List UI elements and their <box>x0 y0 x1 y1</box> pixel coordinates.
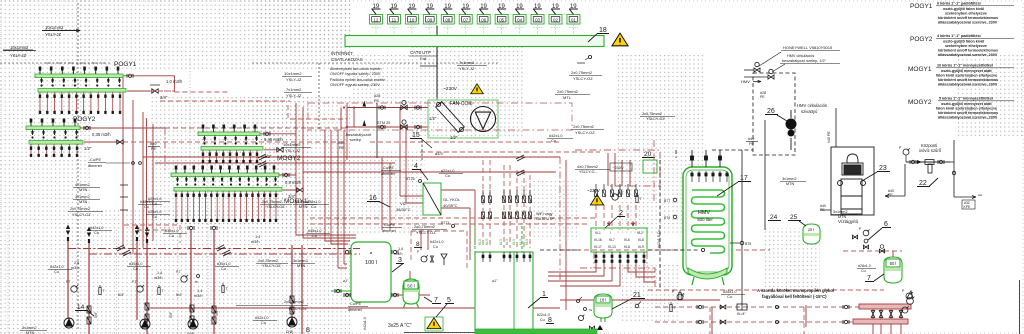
svg-text:Cu: Cu <box>169 234 174 238</box>
bottom right verticals dark <box>711 307 713 334</box>
svg-text:Cu/PE: Cu/PE <box>383 166 394 170</box>
svg-text:m3/h: m3/h <box>194 294 202 298</box>
svg-text:1/2": 1/2" <box>84 146 92 151</box>
svg-text:szekrényben elhelyezve: szekrényben elhelyezve <box>945 44 987 48</box>
svg-text:#42x1,0: #42x1,0 <box>430 240 444 244</box>
svg-text:0,35 m3/h: 0,35 m3/h <box>92 132 111 137</box>
svg-text:7x1mm2: 7x1mm2 <box>459 60 475 65</box>
svg-text:#20: #20 <box>150 142 156 146</box>
svg-text:PE: PE <box>760 95 765 99</box>
svg-text:2x0,75mm2: 2x0,75mm2 <box>284 300 304 304</box>
svg-text:4: 4 <box>414 163 418 170</box>
svg-text:CSATLAKOZÁS: CSATLAKOZÁS <box>331 57 363 62</box>
svg-text:ivóvíz szűrő: ivóvíz szűrő <box>919 148 942 153</box>
svg-text:Vízlágyító: Vízlágyító <box>838 219 859 224</box>
manifold POGY1 supply bar <box>35 74 123 78</box>
svg-text:POGY2: POGY2 <box>910 36 933 43</box>
svg-text:5/4": 5/4" <box>94 311 98 318</box>
svg-text:#42x1,0: #42x1,0 <box>363 317 367 330</box>
svg-text:#35x1,0: #35x1,0 <box>129 262 143 266</box>
svg-text:06: 06 <box>481 18 486 23</box>
expansion tank 18l <box>594 294 612 322</box>
svg-text:4x1mm2: 4x1mm2 <box>75 183 90 187</box>
svg-text:falon kívül szekrényben elhely: falon kívül szekrényben elhelyezve <box>936 74 997 78</box>
check marks on runs <box>116 245 125 251</box>
svg-text:1/2": 1/2" <box>450 135 458 140</box>
svg-text:B: B <box>306 328 310 334</box>
red pipes bottom network <box>150 230 560 308</box>
svg-text:P,T: P,T <box>66 280 71 284</box>
svg-text:16: 16 <box>369 195 377 202</box>
KL box drops <box>595 252 645 264</box>
svg-text:KL5: KL5 <box>485 239 489 245</box>
svg-text:körönként on/off termoelektrom: körönként on/off termoelektromos <box>938 111 998 115</box>
svg-text:14: 14 <box>77 304 85 311</box>
svg-text:#50: #50 <box>338 141 344 145</box>
svg-text:50 l: 50 l <box>407 284 414 289</box>
svg-text:YSLY-JZ: YSLY-JZ <box>286 93 302 98</box>
svg-text:3/4": 3/4" <box>160 95 168 100</box>
svg-text:1,4: 1,4 <box>398 247 403 251</box>
svg-text:20: 20 <box>644 151 652 158</box>
svg-text:4x0,75mm2: 4x0,75mm2 <box>577 164 599 169</box>
svg-text:MTN: MTN <box>79 200 87 204</box>
svg-text:falon kívül szekrényben elhely: falon kívül szekrényben elhelyezve <box>936 107 997 111</box>
svg-text:Cu: Cu <box>152 202 157 206</box>
svg-text:10x1mm2: 10x1mm2 <box>283 142 301 147</box>
fan-coil pump <box>471 107 496 132</box>
svg-text:2x0,75mm2: 2x0,75mm2 <box>70 207 90 211</box>
svg-text:m3/h: m3/h <box>394 252 402 256</box>
fan-coil drop dashed <box>421 140 423 160</box>
svg-text:átmenet: átmenet <box>381 172 396 176</box>
svg-text:Cu: Cu <box>861 269 866 273</box>
svg-text:YSLCY-OZ: YSLCY-OZ <box>266 205 285 209</box>
svg-text:GL.YKOL: GL.YKOL <box>443 197 461 202</box>
feed junction dots <box>343 106 345 108</box>
svg-text:1,4: 1,4 <box>255 235 260 239</box>
top-left dash-dot room line <box>45 62 105 64</box>
svg-text:24: 24 <box>770 214 778 221</box>
svg-text:#35x1,0: #35x1,0 <box>217 262 231 266</box>
svg-text:KL13: KL13 <box>608 245 616 249</box>
heat pump bottom bar <box>475 329 597 334</box>
svg-text:KL8: KL8 <box>624 245 630 249</box>
svg-text:WiFi vagy: WiFi vagy <box>536 212 553 216</box>
manifold MOGY2 loop pipes <box>202 150 258 163</box>
svg-text:3x25 A "C": 3x25 A "C" <box>388 323 412 329</box>
column3 fittings <box>181 276 187 282</box>
manifold POGY2 return bar <box>29 141 83 145</box>
svg-text:YSLCY-OZ: YSLCY-OZ <box>288 307 307 311</box>
black wires middle <box>120 97 437 210</box>
bottom right valves on dashed lines <box>720 305 726 309</box>
wire circle top mid <box>588 55 591 58</box>
svg-text:YSLCY-OZ: YSLCY-OZ <box>416 230 436 235</box>
manifold MOGY1 supply bar <box>171 173 279 177</box>
svg-text:YSLY-JZ: YSLY-JZ <box>285 148 301 153</box>
svg-text:8: 8 <box>548 317 552 324</box>
svg-text:Cu: Cu <box>54 270 59 274</box>
svg-text:0,45 m3/h: 0,45 m3/h <box>264 137 283 142</box>
svg-text:m3/h: m3/h <box>71 266 79 270</box>
label 32 KPE boxed <box>962 200 975 209</box>
bottom right thermos <box>670 305 672 312</box>
safety valve right <box>907 291 913 298</box>
svg-text:MOGY2: MOGY2 <box>277 155 301 162</box>
svg-text:KL8: KL8 <box>638 238 644 242</box>
HMV tank 17 <box>683 167 732 275</box>
pe drop line <box>376 103 378 158</box>
svg-text:02: 02 <box>553 18 558 23</box>
fan-coil valves on feed <box>401 105 407 109</box>
svg-text:átmenet: átmenet <box>348 308 363 312</box>
svg-text:KL2: KL2 <box>637 231 643 235</box>
svg-text:Cu: Cu <box>727 295 732 299</box>
svg-text:ON/OFF bypass szelep, 230V: ON/OFF bypass szelep, 230V <box>330 72 381 76</box>
svg-text:YSLY-JZ: YSLY-JZ <box>459 66 475 71</box>
svg-text:5: 5 <box>447 297 451 304</box>
svg-text:⌀1": ⌀1" <box>492 279 498 283</box>
svg-text:YSLCY-OZ: YSLCY-OZ <box>262 264 281 268</box>
svg-text:BT7: BT7 <box>664 199 670 203</box>
svg-text:17: 17 <box>740 175 748 182</box>
svg-text:10x1mm2: 10x1mm2 <box>45 25 64 30</box>
svg-text:#22x1,0: #22x1,0 <box>537 313 550 317</box>
wire CAT6 UTP vertical <box>436 26 438 98</box>
fan-coil radiator slab <box>436 102 465 133</box>
svg-text:10 körös 1"-1" mennyezethűtési: 10 körös 1"-1" mennyezethűtési <box>937 64 993 68</box>
svg-text:BT6: BT6 <box>664 216 670 220</box>
svg-text:állásszabályozóval szerelve, 2: állásszabályozóval szerelve, 230V <box>938 21 998 25</box>
svg-text:#28x1,0: #28x1,0 <box>858 264 871 268</box>
svg-text:YSLY-JZ: YSLY-JZ <box>10 53 27 58</box>
small fittings left of 18l tank <box>577 300 580 303</box>
svg-text:38/30°C: 38/30°C <box>396 207 411 212</box>
svg-text:CAT6 UTP: CAT6 UTP <box>536 217 555 221</box>
wire cat6 label leader <box>420 65 437 67</box>
svg-text:7: 7 <box>867 275 871 282</box>
svg-text:2x0,75mm2: 2x0,75mm2 <box>262 200 282 204</box>
svg-text:átmenet: átmenet <box>88 164 103 168</box>
svg-text:PE: PE <box>151 147 157 151</box>
filter symbol row <box>906 161 950 163</box>
svg-text:YSLCY-OZ: YSLCY-OZ <box>575 130 595 135</box>
tank 100l <box>351 242 391 302</box>
column4 fittings <box>290 296 294 314</box>
red bottom right drops <box>873 309 901 334</box>
svg-text:PE: PE <box>374 99 380 103</box>
svg-text:osztó-gyűjtő falon kívül: osztó-gyűjtő falon kívül <box>943 40 984 44</box>
svg-text:Ta: Ta <box>589 308 593 312</box>
svg-text:Cu: Cu <box>152 215 157 219</box>
svg-text:PE: PE <box>820 208 825 212</box>
black wires right plumbing <box>404 108 1020 334</box>
svg-text:FAN-COIL: FAN-COIL <box>449 101 472 107</box>
svg-text:KL6: KL6 <box>624 238 630 242</box>
svg-text:PE: PE <box>339 146 345 150</box>
svg-text:állásszabályozóval szerelve, 2: állásszabályozóval szerelve, 230V <box>938 83 998 87</box>
svg-text:26: 26 <box>767 108 775 115</box>
softener room frame <box>831 147 874 215</box>
svg-text:#40: #40 <box>748 137 754 141</box>
svg-text:100 l: 100 l <box>365 260 377 266</box>
svg-text:Cu: Cu <box>311 205 316 209</box>
red staircase to buffer tank <box>296 130 356 268</box>
red distribution dash-dot runs bottom-left <box>68 249 360 255</box>
svg-text:7x1mm2: 7x1mm2 <box>286 87 302 92</box>
HMV tank legs <box>692 277 724 285</box>
svg-text:átmenet: átmenet <box>382 229 397 233</box>
cabinet top green labels <box>478 239 529 245</box>
svg-text:7: 7 <box>434 297 438 304</box>
svg-text:KPE: KPE <box>964 205 972 209</box>
heat exchanger 4 <box>423 183 441 215</box>
red dashdot left of tank <box>653 140 655 203</box>
water softener device 23 <box>838 154 866 214</box>
black dashed boxes and wires right <box>540 73 795 290</box>
wire labels left arrows <box>42 30 80 32</box>
svg-text:07: 07 <box>463 18 468 23</box>
svg-text:Cu: Cu <box>261 321 266 325</box>
svg-text:MTN: MTN <box>297 264 305 268</box>
heat pump green cabinet <box>475 252 533 330</box>
svg-text:MOGY1: MOGY1 <box>908 66 932 73</box>
svg-text:HMV: HMV <box>698 210 711 216</box>
svg-text:INTERNET: INTERNET <box>331 51 353 56</box>
svg-text:6: 6 <box>884 221 888 228</box>
svg-text:10: 10 <box>409 18 414 23</box>
svg-text:YSLCY-OZ: YSLCY-OZ <box>72 213 91 217</box>
red pipe dashed runs <box>123 101 636 248</box>
svg-text:04: 04 <box>517 18 522 23</box>
svg-text:MTL: MTL <box>563 95 572 100</box>
cabinet inner connectors <box>482 252 531 262</box>
svg-text:állásszabályozóval szerelve, 2: állásszabályozóval szerelve, 230V <box>938 116 998 120</box>
manifold POGY2 supply bar <box>26 126 80 130</box>
svg-text:P,T: P,T <box>132 280 137 284</box>
KL feed arrows <box>607 221 634 226</box>
230V box mid <box>610 163 632 171</box>
svg-text:KL5: KL5 <box>512 239 516 245</box>
svg-text:körönként on/off termoelektrom: körönként on/off termoelektromos <box>938 49 998 53</box>
dotted boundary bottom-left <box>116 230 118 334</box>
svg-text:23: 23 <box>879 165 887 172</box>
svg-text:MTN: MTN <box>299 205 307 209</box>
svg-text:1,0 m3/h: 1,0 m3/h <box>166 79 183 84</box>
manifold MOGY1 return bar <box>174 188 282 192</box>
svg-text:10x1mm2: 10x1mm2 <box>10 45 29 50</box>
safety group fittings <box>421 256 427 262</box>
svg-text:KL1: KL1 <box>595 231 601 235</box>
svg-text:m3/h: m3/h <box>154 276 162 280</box>
svg-text:YSLY-JZ: YSLY-JZ <box>45 32 62 37</box>
red dashed bottom-right runs <box>560 250 902 334</box>
svg-text:osztó-gyűjtő mennyezet alatt: osztó-gyűjtő mennyezet alatt <box>941 69 992 73</box>
red filled header bars bottom right <box>859 304 911 309</box>
svg-text:#40 PE: #40 PE <box>827 131 831 143</box>
background dotted zones <box>0 0 90 334</box>
svg-text:fagyállóval kell feltölteni! (: fagyállóval kell feltölteni! (-15°C) <box>762 294 827 299</box>
warning triangle bus <box>612 33 628 46</box>
svg-text:#42x1,0: #42x1,0 <box>549 134 563 138</box>
svg-text:22: 22 <box>919 180 927 187</box>
HMV tank bottom dome <box>688 268 727 279</box>
manifold POGY1 return bar <box>38 89 126 93</box>
gauges bottom right bars <box>906 293 912 299</box>
red pipe network middle <box>143 103 560 260</box>
red risers bottom-left columns <box>68 230 302 334</box>
gauge P right <box>903 149 909 155</box>
svg-text:15: 15 <box>412 132 420 139</box>
svg-text:3: 3 <box>398 257 402 264</box>
svg-text:HMV cirkulációs: HMV cirkulációs <box>787 54 814 58</box>
svg-text:KL5: KL5 <box>525 239 529 245</box>
red pipes KL box risers <box>560 153 720 310</box>
svg-text:PE: PE <box>888 193 893 197</box>
svg-text:12: 12 <box>374 18 379 23</box>
svg-text:8: 8 <box>416 241 420 248</box>
KL terminal box 2 <box>591 228 647 252</box>
svg-text:beszabályozott: beszabályozott <box>346 133 372 137</box>
svg-text:D(Ø): D(Ø) <box>286 330 293 334</box>
svg-text:2x0,75mm2: 2x0,75mm2 <box>642 112 662 116</box>
black dashed control wires left <box>0 3 500 330</box>
svg-text:Fali: Fali <box>420 56 427 61</box>
svg-text:2x0,75mm2: 2x0,75mm2 <box>573 124 595 129</box>
manifold MOGY2 supply bar <box>198 132 260 136</box>
svg-text:KL5: KL5 <box>478 239 482 245</box>
black dashed y250 right part <box>648 249 700 251</box>
svg-text:KL5: KL5 <box>499 239 503 245</box>
svg-text:11: 11 <box>392 18 397 23</box>
svg-text:#42x1,5 Cu: #42x1,5 Cu <box>657 230 661 248</box>
svg-text:P: P <box>902 289 904 293</box>
fan-coil unit box <box>428 100 498 138</box>
HMV top pipes <box>691 150 722 167</box>
red pipe network left risers <box>80 76 347 254</box>
svg-text:#28x1,0: #28x1,0 <box>723 290 737 294</box>
terminal row boxes 12..01 <box>370 4 383 35</box>
svg-text:állásszabályozóval szerelve, 2: állásszabályozóval szerelve, 230V <box>938 53 998 57</box>
svg-text:YSLY-JZ: YSLY-JZ <box>286 77 302 82</box>
column1 fittings <box>71 286 77 292</box>
svg-text:BT25: BT25 <box>406 177 415 181</box>
svg-text:3x1mm2: 3x1mm2 <box>782 177 797 181</box>
svg-text:4 körös 1"-1" padlófűtési: 4 körös 1"-1" padlófűtési <box>937 34 981 38</box>
expansion tank 50l right <box>884 257 902 283</box>
svg-text:2,8: 2,8 <box>74 261 79 265</box>
svg-text:5 körös 1"-1" mennyezethűtési: 5 körös 1"-1" mennyezethűtési <box>939 97 993 101</box>
svg-text:#35x1,0: #35x1,0 <box>308 229 322 233</box>
honeywell valves <box>754 68 760 72</box>
tank 100l connectors <box>344 293 350 297</box>
svg-text:2: 2 <box>619 210 623 217</box>
manifold MOGY1 loop pipes <box>175 191 277 222</box>
svg-text:~230V: ~230V <box>612 165 624 170</box>
svg-text:#28: #28 <box>374 94 380 98</box>
svg-text:Átmennyiseti fan-coilok esetén: Átmennyiseti fan-coilok esetén <box>330 67 382 71</box>
node circles right <box>952 171 955 174</box>
svg-text:40/35°C: 40/35°C <box>443 203 458 208</box>
HMV sensors <box>673 198 677 202</box>
svg-text:Cu: Cu <box>221 267 226 271</box>
svg-text:PE: PE <box>749 142 755 146</box>
KL bottom red bundle <box>548 264 655 286</box>
svg-text:körönként on/off termoelektrom: körönként on/off termoelektromos <box>938 16 998 20</box>
svg-text:KL9: KL9 <box>638 245 644 249</box>
svg-text:POGY1: POGY1 <box>910 3 933 10</box>
gauge PT mid <box>612 194 618 200</box>
svg-text:1/2": 1/2" <box>429 116 437 121</box>
svg-text:5/4": 5/4" <box>215 309 219 316</box>
svg-text:18 l: 18 l <box>600 298 607 303</box>
thermo mid <box>636 196 638 203</box>
svg-text:18: 18 <box>599 27 607 34</box>
svg-text:MTN: MTN <box>838 215 846 219</box>
svg-text:YSLCY-OZ: YSLCY-OZ <box>646 117 665 121</box>
svg-text:POGY1: POGY1 <box>114 61 137 68</box>
svg-text:2x0,75mm2: 2x0,75mm2 <box>258 259 278 263</box>
svg-text:Cu: Cu <box>540 318 545 322</box>
svg-text:05: 05 <box>499 18 504 23</box>
svg-text:2x0,75mm2: 2x0,75mm2 <box>414 224 436 229</box>
svg-text:~230V: ~230V <box>443 86 458 92</box>
svg-text:STM 20: STM 20 <box>377 121 390 125</box>
svg-text:Cu: Cu <box>433 245 438 249</box>
svg-text:Cu/PE: Cu/PE <box>350 302 361 306</box>
svg-text:CAT6 UTP: CAT6 UTP <box>410 50 431 55</box>
svg-text:KL/4": KL/4" <box>737 312 746 316</box>
svg-text:3x1mm2: 3x1mm2 <box>833 210 848 214</box>
svg-text:01: 01 <box>571 18 576 23</box>
svg-text:MOGY2: MOGY2 <box>908 99 932 106</box>
svg-text:KL7: KL7 <box>609 238 615 242</box>
manifold MOGY2 return bar <box>201 147 263 151</box>
honeywell leader lines <box>759 52 781 66</box>
green bus bar 18 <box>345 36 604 47</box>
svg-text:⌀1/4": ⌀1/4" <box>435 152 445 156</box>
svg-text:MTN: MTN <box>786 182 794 186</box>
svg-text:/: / <box>610 231 611 235</box>
svg-text:BT8: BT8 <box>745 242 751 246</box>
svg-text:KL17: KL17 <box>594 245 602 249</box>
svg-text:szivattyú: szivattyú <box>801 109 818 114</box>
column2 fittings <box>137 286 143 292</box>
riser top valves <box>66 225 70 242</box>
svg-text:~230V: ~230V <box>587 188 600 193</box>
svg-text:HONEYWELL V5810Y5015: HONEYWELL V5810Y5015 <box>783 45 833 50</box>
svg-text:Cu: Cu <box>94 231 99 235</box>
svg-text:500 liter: 500 liter <box>697 217 713 222</box>
svg-text:6 körös 1"-1" padlófűtési: 6 körös 1"-1" padlófűtési <box>937 2 981 6</box>
svg-text:0,9 m3/h: 0,9 m3/h <box>285 180 302 185</box>
svg-text:KL16: KL16 <box>594 238 602 242</box>
svg-text:3x1mm2: 3x1mm2 <box>22 326 37 330</box>
manifold POGY2 loop valves <box>30 119 78 139</box>
tank 50l right connection <box>892 251 894 257</box>
svg-text:osztó-gyűjtő mennyezet alatt: osztó-gyűjtő mennyezet alatt <box>941 102 992 106</box>
svg-text:2x0,75mm2: 2x0,75mm2 <box>571 70 593 75</box>
HMV tank coil <box>692 190 725 253</box>
svg-text:09: 09 <box>427 18 432 23</box>
svg-text:3/4": 3/4" <box>288 194 296 199</box>
svg-text:YSLCY-O...: YSLCY-O... <box>579 170 597 174</box>
actuator components above KL box <box>482 190 532 219</box>
svg-text:VIZ: VIZ <box>400 201 407 206</box>
svg-text:HMV: HMV <box>741 79 750 84</box>
svg-text:Cu/PE: Cu/PE <box>384 223 395 227</box>
